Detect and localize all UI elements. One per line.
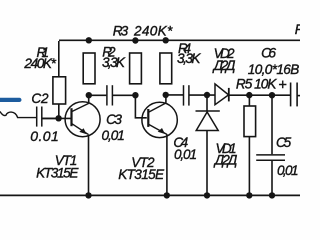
svg-text:0,01: 0,01 <box>102 128 125 143</box>
antenna blue marker bar <box>0 98 22 102</box>
wire mid segment VT2coll to C4 <box>166 94 183 96</box>
junction dot R3 bottom node <box>132 92 138 98</box>
junction dot R5 ground <box>246 192 252 198</box>
wire C5 bottom lead <box>271 161 273 196</box>
svg-text:C3: C3 <box>106 112 122 127</box>
svg-text:C6: C6 <box>261 46 276 61</box>
svg-text:C5: C5 <box>276 135 292 150</box>
svg-text:KT315E: KT315E <box>118 167 165 182</box>
wire VT2 collector lead <box>165 95 167 103</box>
resistor R3 <box>130 53 142 84</box>
svg-text:0,01: 0,01 <box>174 147 197 162</box>
svg-text:10,0*16B: 10,0*16B <box>248 62 299 77</box>
wire C2 to base node <box>42 117 58 119</box>
capacitor C5 <box>256 155 285 160</box>
wire bottom ground rail <box>0 194 300 196</box>
wire top supply rail <box>59 39 300 41</box>
wire C6 right lead <box>297 95 300 97</box>
junction dot VT2 collector node <box>163 92 169 98</box>
resistor R5 <box>244 106 256 137</box>
junction dot R3 top <box>132 37 138 43</box>
svg-text:3,3K: 3,3K <box>102 55 126 70</box>
wire R1 top lead <box>58 41 60 77</box>
wire R5 top lead <box>248 95 250 106</box>
junction dot C5 top node <box>269 92 275 98</box>
svg-text:Д2Д: Д2Д <box>213 153 238 168</box>
junction dot C5 ground <box>269 192 275 198</box>
wire R3 bottom to VT2 base <box>135 95 146 118</box>
wire VT1 emitter lead <box>88 135 90 196</box>
wire R5 bottom lead <box>248 137 250 196</box>
junction dot VT2 emitter ground <box>164 192 170 198</box>
svg-text:3,3K: 3,3K <box>177 51 201 66</box>
svg-text:0,01: 0,01 <box>277 163 299 178</box>
wire mid segment C4 to VD2 <box>189 94 215 96</box>
junction dot R2 top <box>86 37 92 43</box>
capacitor C3 <box>107 85 113 105</box>
diode VD2 <box>215 84 229 105</box>
svg-text:Д2Д: Д2Д <box>212 58 236 73</box>
wire VT1 collector lead <box>88 95 90 103</box>
wire VD1 bottom lead <box>206 131 208 196</box>
svg-text:+: + <box>278 78 286 94</box>
transistor VT2 <box>142 102 177 137</box>
svg-text:R5 10K: R5 10K <box>236 76 277 91</box>
junction dot VT1 emitter ground <box>85 192 91 198</box>
wire R1 bottom lead <box>58 104 60 118</box>
junction dot VT1 base node <box>55 115 61 121</box>
junction dot R4 top <box>163 37 169 43</box>
svg-text:C2: C2 <box>31 91 49 106</box>
svg-text:R3: R3 <box>113 23 129 38</box>
junction dot R5 top node <box>246 92 252 98</box>
capacitor C2 <box>37 107 42 127</box>
wire VD1 top lead <box>206 95 208 111</box>
wire mid segment VD2 to C6 <box>229 94 290 96</box>
diode VD1 <box>196 111 220 131</box>
svg-text:240K*: 240K* <box>23 56 56 71</box>
svg-text:240K*: 240K* <box>133 23 173 38</box>
wire VT1 base wire <box>42 117 70 119</box>
inductor L1 coil tail <box>0 111 36 117</box>
resistor R1 <box>53 77 66 104</box>
junction dot VT1 collector node <box>86 92 92 98</box>
wire VT2 emitter lead <box>166 134 168 195</box>
transistor VT1 <box>65 102 100 137</box>
resistor R2 <box>83 53 95 84</box>
capacitor C4 <box>184 85 189 105</box>
junction dot VD1 ground <box>204 192 210 198</box>
junction dot VD1 cathode node <box>204 92 210 98</box>
wire mid segment R2bottom to C3 <box>89 94 107 96</box>
resistor R4 <box>160 53 172 84</box>
svg-text:R6: R6 <box>295 22 300 37</box>
svg-text:KT315E: KT315E <box>36 166 79 181</box>
svg-text:0.01: 0.01 <box>30 128 59 144</box>
wire mid segment C3 to R3bottom <box>113 94 135 96</box>
capacitor C6 electrolytic <box>291 83 298 107</box>
wire C5 top lead <box>271 95 273 154</box>
